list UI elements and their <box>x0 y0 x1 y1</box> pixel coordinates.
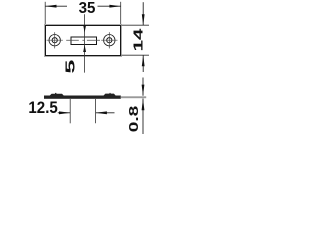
side view right screw dome <box>109 93 110 94</box>
dim 35 right arrow <box>109 5 120 8</box>
dim 35 line right segment <box>98 5 121 7</box>
dim 5 down arrow <box>83 25 86 32</box>
dim 0.8 down arrow <box>142 85 145 96</box>
slot centerline <box>66 39 100 41</box>
left hole outer circle <box>49 35 60 46</box>
left hole crosshair vertical <box>54 32 56 48</box>
svg-text:14: 14 <box>130 28 145 51</box>
svg-text:0.8: 0.8 <box>127 106 141 133</box>
svg-text:5: 5 <box>64 60 78 74</box>
dim 14 bottom extension line <box>122 54 150 56</box>
dim 12.5 left extension line <box>69 99 71 123</box>
left hole inner circle <box>52 38 57 43</box>
plate outline (top view) <box>44 24 121 56</box>
dim 35 line left segment <box>45 5 67 7</box>
dim 35 left arrow <box>45 5 56 8</box>
dim 35 right extension line <box>120 2 122 24</box>
dim 12.5 line right <box>96 112 115 114</box>
svg-text:12.5: 12.5 <box>28 99 57 117</box>
dim 12.5 line left <box>58 112 70 114</box>
dim 12.5 left arrow <box>96 111 107 114</box>
dim 0.8 upper line <box>142 78 144 96</box>
right hole outer circle <box>104 35 115 46</box>
right hole crosshair vertical <box>108 32 110 48</box>
dim 5 up arrow <box>83 45 86 52</box>
dim 5 vertical line <box>84 14 86 72</box>
side view edge extension band (0.8) <box>121 96 146 98</box>
dim 35 left extension line <box>44 2 46 24</box>
dim 0.8 lower line <box>142 99 144 135</box>
dim 12.5 right extension line <box>95 99 97 123</box>
dim 14 top extension line <box>122 24 150 26</box>
dim 0.8 up arrow <box>142 99 145 111</box>
svg-text:35: 35 <box>79 0 96 17</box>
dim 14 up arrow <box>142 55 145 66</box>
left hole crosshair horizontal <box>47 39 63 41</box>
dim 14 upper line <box>142 2 144 25</box>
side view bar <box>44 96 121 99</box>
dim 14 down arrow <box>142 14 145 25</box>
right hole inner circle <box>107 38 112 43</box>
right hole crosshair horizontal <box>101 39 117 41</box>
dim 12.5 right arrow into line <box>59 111 70 114</box>
dim 14 lower line <box>142 55 144 72</box>
slot <box>71 37 96 44</box>
side view left screw dome <box>55 93 56 94</box>
